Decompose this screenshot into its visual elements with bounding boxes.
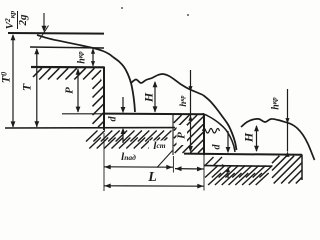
nappe curve drop 2 inner — [203, 114, 236, 153]
dimension l_st — [175, 166, 204, 171]
stage 2 floor line — [104, 113, 204, 116]
nappe curve drop 2 outer — [203, 95, 237, 150]
water surface curve stage 1 — [37, 35, 113, 57]
ground hatching under stage 3 apron — [205, 166, 272, 186]
dimension d stage 2 — [226, 131, 231, 178]
downstream bed block hatching — [272, 156, 302, 184]
label d stage 2 — [211, 141, 223, 154]
step 2 left edge — [172, 114, 174, 155]
ground hatching under stage 2 apron — [86, 131, 172, 149]
dimension T0 — [11, 34, 16, 128]
tick across energy line — [40, 26, 49, 40]
velocity head arrow — [42, 13, 47, 32]
white gap for l_st label — [149, 141, 168, 152]
label P stage 2 — [176, 128, 189, 144]
extension line at step 2 face — [203, 156, 205, 191]
label l_st — [147, 140, 173, 153]
dimension l_pad — [104, 165, 173, 170]
label P stage 1 — [63, 83, 76, 99]
hatching slab 3 left end — [205, 157, 223, 166]
wavy pool surface behind nappe — [203, 129, 220, 134]
label velocity head V_kr^2/2g — [2, 0, 32, 41]
step 2 vertical face — [203, 114, 205, 156]
P reference line extension — [62, 113, 104, 115]
hatching step 1 right band — [93, 80, 105, 127]
energy grade line — [8, 32, 104, 35]
dimension H stage 2 — [254, 125, 259, 152]
label T — [19, 80, 32, 96]
label h_kr stage 1 — [76, 47, 89, 69]
dimension d stage 1 — [121, 97, 126, 143]
label H stage 1 — [141, 89, 154, 105]
label h_kr stage 2 — [177, 91, 189, 111]
label L — [144, 171, 162, 186]
label d stage 1 — [107, 112, 119, 125]
tailwater surface stage 3 — [241, 119, 315, 160]
speck — [121, 7, 189, 16]
dimension h_kr stage 1 — [91, 48, 95, 66]
extension line at step 1 face — [103, 133, 105, 191]
step 1 crest line — [31, 66, 104, 69]
hatching step 2 block — [174, 115, 204, 153]
white gap for P label — [177, 125, 188, 145]
stage 2 apron underside / baseline — [5, 127, 175, 129]
dimension T — [34, 48, 39, 127]
dimension h_kr and P stage 2 — [188, 70, 193, 152]
nappe curve drop 1 — [113, 57, 135, 112]
leader line l_st — [157, 151, 173, 168]
step 1 vertical face — [103, 67, 105, 131]
dimension L — [104, 184, 204, 189]
upstream water level line — [30, 47, 104, 48]
tailwater surface stage 2 — [131, 74, 203, 95]
label T0 — [0, 67, 12, 87]
extension line at step 2 left — [172, 156, 174, 173]
label h_kr stage 3 — [270, 91, 283, 115]
label H stage 2 — [242, 129, 255, 145]
hatching step 1 top band — [33, 68, 101, 79]
stage 3 floor line — [184, 154, 302, 155]
stage 3 apron underside — [204, 165, 272, 168]
dimension H stage 1 — [153, 81, 158, 113]
dimension h_kr stage 3 — [285, 89, 289, 157]
label l_pad — [113, 151, 145, 164]
downstream bed block right edge — [301, 155, 303, 181]
dimension P stage 1 — [76, 69, 81, 113]
